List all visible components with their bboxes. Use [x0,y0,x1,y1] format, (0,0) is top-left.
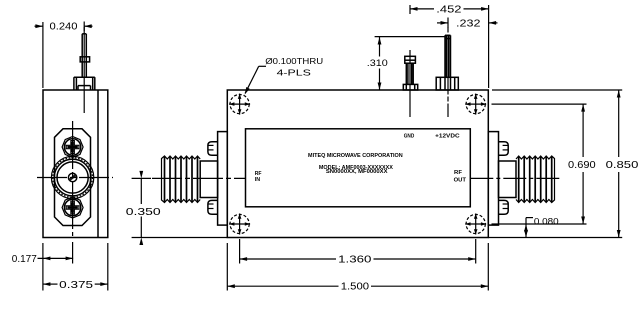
svg-text:0.177: 0.177 [12,253,37,265]
svg-text:.310: .310 [367,58,388,68]
dimension 0.375 [43,243,108,291]
svg-text:1.360: 1.360 [338,255,372,266]
mounting hole H2 top-right [465,94,486,115]
flange screw S2 (bottom) [62,197,83,218]
coax connector face circles [51,156,93,198]
GND pin P2 [403,50,417,117]
left SMA connector J1 [162,132,228,226]
side view body outline [43,90,108,238]
svg-text:MITEQ MICROWAVE CORPORATION: MITEQ MICROWAVE CORPORATION [308,153,403,159]
dimension 0.850 [488,90,638,238]
dimension .452 [410,4,489,88]
side view feedthrough pin P1 [74,27,95,113]
svg-text:OUT: OUT [454,177,467,183]
+12VDC pin P3 [436,28,458,118]
side view centerlines [37,121,113,236]
front body outline [227,90,488,238]
svg-text:.452: .452 [436,4,461,16]
svg-text:0.690: 0.690 [568,159,596,171]
svg-text:0.350: 0.350 [126,206,161,218]
svg-text:.232: .232 [456,18,481,30]
dimension 1.500 [227,243,488,293]
hole callout leader [243,57,323,95]
svg-text:0.080: 0.080 [534,216,559,226]
main horizontal centerline [152,177,562,179]
svg-text:+12VDC: +12VDC [435,133,459,139]
dimension 0.240 [35,21,93,88]
svg-text:SN0000XX, MF0000XX: SN0000XX, MF0000XX [326,169,388,175]
dimension .232 [437,18,498,30]
dimension 0.690 [492,104,596,224]
dimension 0.080 [524,216,559,237]
svg-text:IN: IN [255,177,260,183]
SMA flange octagon plate [55,129,91,226]
label plate rectangle [246,129,471,207]
svg-text:4-PLS: 4-PLS [277,69,312,78]
mounting hole H1 top-left [229,94,250,115]
dimension 0.177 [12,242,73,291]
svg-text:1.500: 1.500 [341,282,370,293]
svg-text:Ø0.100THRU: Ø0.100THRU [265,57,323,66]
svg-text:0.240: 0.240 [50,21,78,33]
flange screw S1 (top) [62,137,83,158]
svg-text:GND: GND [404,133,415,139]
svg-text:RF: RF [454,170,463,176]
right SMA connector J2 [488,132,554,226]
svg-text:0.850: 0.850 [606,159,639,171]
dimension .310 [367,37,445,90]
mounting hole H3 bottom-left [229,214,250,235]
dimension 1.360 [240,239,476,266]
svg-text:0.375: 0.375 [59,279,93,291]
dimension 0.350 [126,171,228,245]
mounting hole H4 bottom-right [465,214,486,235]
